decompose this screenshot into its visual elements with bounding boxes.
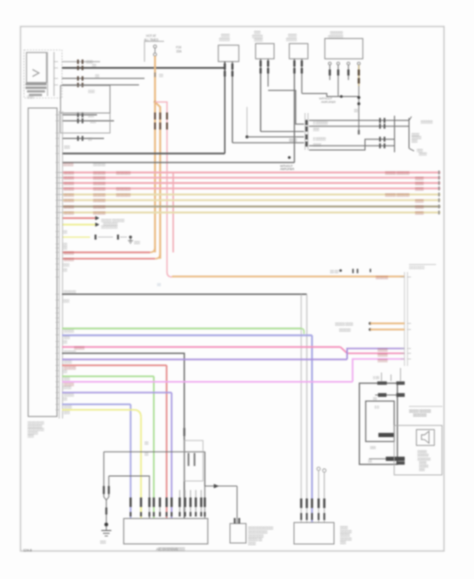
wire K3 right pin jog xyxy=(302,94,342,97)
wire shield drain row xyxy=(62,235,141,245)
arrow glyph inside U1 xyxy=(33,70,40,77)
wire green drop xyxy=(153,376,155,518)
svg-text:▒▒▒▒▒▒▒: ▒▒▒▒▒▒▒ xyxy=(116,171,131,175)
wire K1 right to connector xyxy=(232,142,304,144)
connector mark on gray drop xyxy=(183,428,185,436)
wire R2 y126.2 xyxy=(309,124,409,129)
amplifier A2 box xyxy=(359,383,397,464)
wire gray drop to box K6 xyxy=(301,294,307,522)
amplifier spare pin stubs xyxy=(180,490,202,498)
splice of orange wire xyxy=(154,101,157,104)
wire pink row 1 xyxy=(58,171,441,175)
wire yellow row y409.8 xyxy=(62,410,141,418)
svg-text:▒▒▒: ▒▒▒ xyxy=(64,145,71,149)
svg-text:▒▒: ▒▒ xyxy=(373,397,378,401)
svg-text:▒▒▒: ▒▒▒ xyxy=(27,95,34,99)
wire hot-pink row xyxy=(62,346,405,357)
wire spare drop 1 xyxy=(317,467,320,522)
wire black row y294.2 xyxy=(62,290,307,294)
svg-text:▒▒▒▒: ▒▒▒▒ xyxy=(415,199,424,203)
svg-text:▒▒: ▒▒ xyxy=(63,340,68,344)
K2 pin wires xyxy=(261,59,269,132)
svg-text:▒▒▒: ▒▒▒ xyxy=(88,90,95,94)
U2 pin ticks xyxy=(56,115,60,410)
speaker box xyxy=(416,430,434,446)
svg-text:▒▒: ▒▒ xyxy=(88,137,93,141)
svg-text:▒▒▒▒▒: ▒▒▒▒▒ xyxy=(63,162,74,166)
svg-text:▒▒▒▒▒▒: ▒▒▒▒▒▒ xyxy=(93,176,106,180)
svg-text:▒▒▒▒▒: ▒▒▒▒▒ xyxy=(64,171,75,175)
fuse bracket xyxy=(145,41,165,61)
inline connector on ground wire xyxy=(105,508,107,515)
wire gray loop B left drop xyxy=(108,476,110,497)
junction dot J1 xyxy=(246,135,249,138)
sub-box B1 xyxy=(61,86,111,114)
A2 top edge connector bars xyxy=(377,381,404,384)
wire R4 jog y150 xyxy=(309,137,395,150)
svg-text:▒▒▒▒: ▒▒▒▒ xyxy=(248,541,257,545)
wire row y78.4 xyxy=(62,74,145,81)
ground lead G1 xyxy=(409,148,428,156)
svg-text:▒▒: ▒▒ xyxy=(95,74,100,78)
svg-text:▒▒: ▒▒ xyxy=(368,459,373,463)
K5 pins xyxy=(235,518,240,524)
speaker label block xyxy=(417,450,431,472)
wire orange branch to v2 xyxy=(155,102,160,259)
svg-text:▒ ▒: ▒ ▒ xyxy=(375,405,380,409)
svg-text:▒▒▒: ▒▒▒ xyxy=(63,263,70,267)
ground join xyxy=(104,497,109,525)
relay K1 labels xyxy=(219,34,231,42)
svg-text:▒▒▒▒▒▒: ▒▒▒▒▒▒ xyxy=(93,171,106,175)
right connector pin ticks xyxy=(401,277,412,359)
wire tan row 2 xyxy=(58,198,441,202)
svg-text:▒ ▒▒▒▒▒▒: ▒ ▒▒▒▒▒▒ xyxy=(313,121,329,125)
wire row y84.9 xyxy=(62,83,139,88)
svg-text:▒▒▒▒: ▒▒▒▒ xyxy=(254,38,263,42)
amplifier connector pins xyxy=(131,498,205,517)
module K2 box xyxy=(256,44,275,59)
svg-text:▒▒: ▒▒ xyxy=(63,268,68,272)
svg-text:▒ ▒▒▒▒▒: ▒ ▒▒▒▒▒ xyxy=(313,137,327,141)
svg-text:▒▒▒▒▒▒: ▒▒▒▒▒▒ xyxy=(93,181,106,185)
svg-text:▒▒▒▒▒: ▒▒▒▒▒ xyxy=(378,353,389,357)
svg-text:▒▒▒▒▒: ▒▒▒▒▒ xyxy=(64,205,75,209)
wire pink row 4 xyxy=(58,186,441,190)
svg-text:▒▒: ▒▒ xyxy=(145,452,150,456)
svg-text:▒▒▒▒: ▒▒▒▒ xyxy=(415,205,424,209)
without-amp note right xyxy=(409,265,436,270)
K1 pin wires xyxy=(225,62,233,154)
svg-text:▒▒▒▒▒▒▒: ▒▒▒▒▒▒▒ xyxy=(413,413,428,417)
wire to K5 box xyxy=(205,452,237,524)
splice dots on tan wire xyxy=(354,96,360,113)
svg-text:▒▒: ▒▒ xyxy=(92,64,97,68)
A2 title text xyxy=(409,406,443,417)
component U1 outer dashed box xyxy=(24,50,62,98)
svg-text:▒▒▒▒: ▒▒▒▒ xyxy=(415,211,424,215)
svg-text:▒▒▒▒▒▒: ▒▒▒▒▒▒ xyxy=(93,162,106,166)
svg-text:▒▒▒▒▒▒▒▒: ▒▒▒▒▒▒▒▒ xyxy=(101,225,118,229)
svg-text:▒▒▒▒: ▒▒▒▒ xyxy=(63,386,72,390)
svg-text:▒▒▒▒▒▒: ▒▒▒▒▒▒ xyxy=(421,120,434,124)
wire green row y377.6 xyxy=(62,376,154,381)
wire red row to v1 xyxy=(62,247,155,255)
U1 connector strip xyxy=(48,52,55,96)
wire pink row 3 xyxy=(58,181,441,185)
wire spare drop 2 xyxy=(323,469,326,523)
svg-text:▒▒▒: ▒▒▒ xyxy=(88,113,95,117)
ground splice dot xyxy=(104,523,108,527)
inline connectors on ground pair xyxy=(104,486,109,494)
wire row y67.9 (to K1) xyxy=(62,64,225,71)
K3 pin wires xyxy=(294,59,301,163)
splice S2 label xyxy=(319,97,336,104)
svg-text:▒▒▒▒▒: ▒▒▒▒▒ xyxy=(378,348,389,352)
wire red row y366.5 xyxy=(62,365,167,370)
splice S2 xyxy=(340,95,343,98)
svg-text:▒▒: ▒▒ xyxy=(63,397,68,401)
svg-text:▒▒▒▒: ▒▒▒▒ xyxy=(415,176,424,180)
svg-text:▒▒▒▒▒: ▒▒▒▒▒ xyxy=(219,37,231,41)
wire pink vertical v3 xyxy=(172,173,174,253)
inline connector on orange wire xyxy=(155,73,164,78)
wire pink row 2 xyxy=(58,176,441,180)
svg-text:▒▒▒▒: ▒▒▒▒ xyxy=(64,360,73,364)
svg-text:▒▒▒: ▒▒▒ xyxy=(64,377,71,381)
component K5 box xyxy=(230,524,246,544)
inline connector column pins xyxy=(305,113,308,150)
wire blue row y334.8 xyxy=(62,335,312,339)
wire yellow splice row xyxy=(62,223,118,229)
svg-text:▒▒▒▒▒: ▒▒▒▒▒ xyxy=(64,257,75,261)
svg-text:▒▒▒▒▒▒: ▒▒▒▒▒▒ xyxy=(339,328,352,332)
wire violet drop xyxy=(171,393,173,519)
svg-text:▒▒▒▒▒: ▒▒▒▒▒ xyxy=(378,359,389,363)
svg-text:▒▒▒: ▒▒▒ xyxy=(134,240,141,244)
svg-text:▒▒: ▒▒ xyxy=(157,283,162,287)
svg-text:▒▒▒▒▒ ▒▒▒▒▒▒: ▒▒▒▒▒ ▒▒▒▒▒▒ xyxy=(385,193,410,197)
fuse label HOT AT ALL TIMES xyxy=(144,34,158,42)
without-amp label mid xyxy=(280,164,295,171)
svg-text:▒▒▒: ▒▒▒ xyxy=(340,541,347,545)
svg-text:▒▒▒▒▒: ▒▒▒▒▒ xyxy=(64,176,75,180)
wire blue2 row y411.5 xyxy=(62,404,131,409)
tan wire end blob xyxy=(358,130,360,135)
svg-text:▒▒▒▒▒: ▒▒▒▒▒ xyxy=(64,211,75,215)
svg-text:▒▒▒▒▒: ▒▒▒▒▒ xyxy=(64,193,75,197)
wire drop into amp right xyxy=(204,452,206,519)
K4 pins xyxy=(328,62,349,80)
svg-text:▒▒▒: ▒▒▒ xyxy=(64,335,71,339)
junction box K4 xyxy=(325,39,363,59)
svg-text:▒▒▒▒: ▒▒▒▒ xyxy=(415,187,424,191)
wire pink branch xyxy=(155,102,172,277)
wire blue drop long xyxy=(311,335,313,522)
U2 label block xyxy=(28,421,45,438)
svg-text:▒▒▒▒▒▒: ▒▒▒▒▒▒ xyxy=(64,350,77,354)
svg-text:▒▒▒▒▒ ▒▒▒▒: ▒▒▒▒▒ ▒▒▒▒ xyxy=(335,322,354,326)
wire y163.5 xyxy=(62,156,294,166)
K6 connector pins xyxy=(301,499,324,521)
svg-text:▒▒▒▒▒▒: ▒▒▒▒▒▒ xyxy=(93,187,106,191)
wire tan-dark row 3 xyxy=(58,205,441,209)
B1 lower section xyxy=(61,113,111,133)
module K3 box xyxy=(289,44,308,59)
svg-text:15A: 15A xyxy=(176,50,182,54)
wire orange fuse drop xyxy=(154,56,156,102)
svg-text:AMPLIFIER: AMPLIFIER xyxy=(280,167,295,171)
K5 label xyxy=(248,526,274,545)
wire red drop xyxy=(166,365,168,518)
U2 connector strip xyxy=(59,111,62,419)
module K2 labels xyxy=(252,31,264,43)
svg-text:▒▒▒▒: ▒▒▒▒ xyxy=(415,182,424,186)
svg-text:▒▒▒▒: ▒▒▒▒ xyxy=(64,405,73,409)
svg-text:▒▒▒▒▒▒: ▒▒▒▒▒▒ xyxy=(93,211,106,215)
svg-text:▒▒▒▒▒▒▒: ▒▒▒▒▒▒▒ xyxy=(116,187,131,191)
speaker enclosure box xyxy=(394,425,442,475)
wire black row y353.9 drop xyxy=(62,350,184,519)
A2 thick bar 1 xyxy=(378,433,394,437)
connector column right xyxy=(405,272,408,366)
junction box K4 labels xyxy=(328,31,344,39)
wire magenta row xyxy=(62,359,405,387)
K4 tan pin wire xyxy=(357,62,360,134)
fuse F1 xyxy=(154,45,157,56)
wire violet row y398.9 xyxy=(62,393,172,398)
wire red splice row xyxy=(62,216,125,226)
svg-text:▒▒▒▒▒: ▒▒▒▒▒ xyxy=(64,329,75,333)
K6 label right xyxy=(340,526,353,545)
svg-text:▒▒▒▒▒▒: ▒▒▒▒▒▒ xyxy=(93,199,106,203)
wire red row to v2 xyxy=(62,254,160,262)
label on crossing xyxy=(145,441,150,456)
A2 top pin stubs xyxy=(373,368,401,381)
relay K1 box xyxy=(218,45,239,61)
module K3 labels xyxy=(286,34,298,42)
wire tan row 1 xyxy=(58,193,441,197)
wire K4 pin2 drop xyxy=(338,80,359,97)
svg-text:▒▒▒▒▒: ▒▒▒▒▒ xyxy=(64,199,75,203)
svg-text:▒▒▒▒▒▒: ▒▒▒▒▒▒ xyxy=(64,290,77,294)
wire stub row y120.8 xyxy=(62,118,114,123)
svg-text:▒▒: ▒▒ xyxy=(63,369,68,373)
wire tan row 4 xyxy=(58,211,441,215)
svg-text:▒▒▒▒▒: ▒▒▒▒▒ xyxy=(286,37,298,41)
svg-text:▒▒: ▒▒ xyxy=(63,246,68,250)
wire green row y328.5 xyxy=(62,329,304,335)
wire row y61.7 xyxy=(62,60,100,65)
wire K2 right pin jog xyxy=(268,90,304,124)
wire orange stub 1 xyxy=(335,322,405,326)
svg-text:▒▒▒▒▒ ▒▒▒▒▒▒: ▒▒▒▒▒ ▒▒▒▒▒▒ xyxy=(385,171,410,175)
wire gray loop B xyxy=(109,476,150,519)
inline component box on shield wires xyxy=(184,441,203,482)
wire gray loop A left drop xyxy=(103,452,105,497)
speaker SP1 glyph xyxy=(422,431,430,443)
wire stub row y138.4 xyxy=(62,136,104,141)
svg-text:AMPLIFIER: AMPLIFIER xyxy=(321,100,336,104)
svg-text:▒▒▒▒▒▒: ▒▒▒▒▒▒ xyxy=(93,205,106,209)
svg-text:▒▒: ▒▒ xyxy=(145,441,150,445)
wire orange stub 2 xyxy=(339,328,405,332)
component U2 tall box xyxy=(28,108,57,417)
svg-text:▒ ▒▒: ▒ ▒▒ xyxy=(373,376,380,380)
amplifier A1 box xyxy=(124,519,208,544)
svg-text:▒▒▒: ▒▒▒ xyxy=(100,540,107,544)
A2 wire row3 xyxy=(368,457,405,463)
svg-text:▒▒▒: ▒▒▒ xyxy=(28,434,35,438)
svg-text:▒▒▒: ▒▒▒ xyxy=(63,299,70,303)
svg-text:▒▒▒▒▒▒▒▒: ▒▒▒▒▒▒▒▒ xyxy=(409,265,425,269)
wire stub row y114.8 xyxy=(62,112,97,117)
svg-text:▒▒▒▒▒: ▒▒▒▒▒ xyxy=(64,251,75,255)
svg-text:124-8: 124-8 xyxy=(23,549,32,553)
svg-text:▒▒▒▒: ▒▒▒▒ xyxy=(419,152,428,156)
wire gray loop A xyxy=(104,451,205,453)
A2 inner box xyxy=(366,401,395,441)
wire blue2 drop xyxy=(130,404,132,518)
component U1 inner box xyxy=(27,53,47,83)
ground G2 symbol xyxy=(101,526,111,536)
svg-text:▒▒: ▒▒ xyxy=(354,109,359,113)
svg-text:▒▒▒▒▒: ▒▒▒▒▒ xyxy=(64,187,75,191)
U1 text block xyxy=(26,83,47,96)
svg-text:▒▒▒▒: ▒▒▒▒ xyxy=(289,138,298,142)
ground label block xyxy=(412,133,423,143)
svg-text:▒▒▒: ▒▒▒ xyxy=(419,468,426,472)
svg-text:▒▒: ▒▒ xyxy=(63,230,68,234)
A2 bottom edge connector bar xyxy=(396,461,404,464)
wire white drop to junction xyxy=(246,107,248,137)
svg-text:▒▒▒: ▒▒▒ xyxy=(313,127,320,131)
component K6 box xyxy=(294,523,334,545)
U1 pin ticks xyxy=(54,62,58,85)
vertical bus V2 xyxy=(408,118,410,148)
svg-text:▒▒▒▒: ▒▒▒▒ xyxy=(313,143,322,147)
fuse F1 value label xyxy=(176,46,182,54)
svg-text:▒▒▒▒▒▒▒: ▒▒▒▒▒▒▒ xyxy=(116,193,131,197)
arrow on wire xyxy=(214,484,219,488)
inline connectors on verticals xyxy=(155,113,167,130)
wire J1 to connector xyxy=(247,136,304,138)
wire R1 y120.4 xyxy=(309,117,412,123)
svg-text:▒▒ ▒▒: ▒▒ ▒▒ xyxy=(330,270,339,274)
A2 wire row2 xyxy=(373,393,405,401)
svg-text:▒▒▒▒▒▒: ▒▒▒▒▒▒ xyxy=(93,193,106,197)
svg-text:▒▒▒: ▒▒▒ xyxy=(90,119,97,123)
wire R3 y145.8 xyxy=(309,143,395,148)
svg-text:▒▒▒▒▒: ▒▒▒▒▒ xyxy=(64,181,75,185)
wire orange long row xyxy=(172,269,405,280)
vertical bus V1 xyxy=(394,116,396,153)
wire purple row xyxy=(62,348,405,364)
wire orange vertical v1 xyxy=(154,102,156,252)
svg-text:▒▒: ▒▒ xyxy=(159,74,164,78)
wire yellow drop xyxy=(140,417,142,518)
svg-text:▒▒▒▒▒▒: ▒▒▒▒▒▒ xyxy=(376,276,389,280)
inline connector labels xyxy=(313,121,329,147)
wire y154.2 thick xyxy=(62,153,225,155)
svg-text:▒▒▒▒▒▒▒▒▒▒▒▒▒: ▒▒▒▒▒▒▒▒▒▒▒▒▒ xyxy=(158,547,186,551)
svg-text:▒▒▒: ▒▒▒ xyxy=(370,446,377,450)
svg-text:▒▒▒: ▒▒▒ xyxy=(64,410,71,414)
wire K2 left to connector xyxy=(261,131,304,133)
